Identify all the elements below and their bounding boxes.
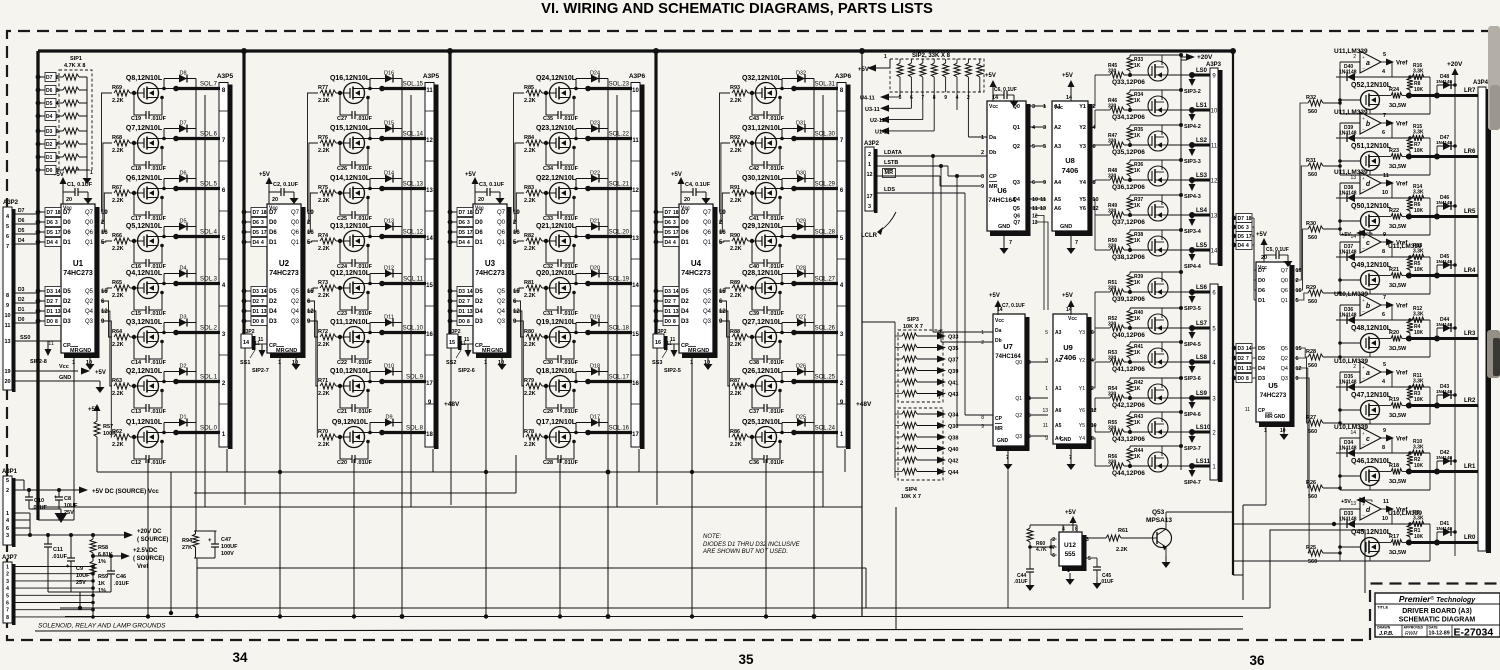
svg-text:APPROVED: APPROVED <box>1404 626 1424 630</box>
svg-text:74HC273: 74HC273 <box>475 270 505 277</box>
svg-text:GND: GND <box>1060 224 1072 230</box>
svg-text:RWM: RWM <box>1405 631 1418 637</box>
svg-text:DRIVER BOARD (A3): DRIVER BOARD (A3) <box>1402 608 1472 615</box>
resistor R18 3ohm 5W <box>1380 471 1392 473</box>
svg-text:8: 8 <box>981 174 984 180</box>
svg-text:SOL.31: SOL.31 <box>815 82 836 88</box>
svg-text:D2: D2 <box>269 299 277 305</box>
resistor SIP1 element D1 <box>36 155 41 160</box>
capacitor C8 10UF 25V <box>57 488 61 492</box>
svg-text:14: 14 <box>1350 234 1356 240</box>
svg-text:1N4148: 1N4148 <box>1339 250 1357 256</box>
svg-text:12: 12 <box>426 138 433 144</box>
svg-text:8: 8 <box>6 615 9 621</box>
svg-text:U7: U7 <box>1003 342 1013 351</box>
svg-text:4: 4 <box>1032 125 1036 131</box>
svg-text:5: 5 <box>56 114 59 120</box>
svg-text:Q2,12N10L: Q2,12N10L <box>126 368 163 375</box>
svg-text:U5: U5 <box>1268 381 1278 390</box>
svg-text:Q42: Q42 <box>948 459 958 465</box>
wire IC output bundle <box>719 93 730 437</box>
svg-text:Db: Db <box>989 150 997 156</box>
svg-text:560: 560 <box>1308 235 1317 241</box>
node data stub D5 <box>448 230 453 235</box>
svg-text:10: 10 <box>1032 197 1038 203</box>
transistor Q40 12P06 <box>1148 314 1168 334</box>
wire diode common vertical <box>195 79 197 508</box>
wire comparator input node 45 <box>1339 509 1341 561</box>
node data stub D2 <box>448 299 453 304</box>
svg-text:Q37: Q37 <box>948 358 958 364</box>
svg-text:D6: D6 <box>459 220 466 226</box>
svg-text:10K X 7: 10K X 7 <box>901 494 921 500</box>
svg-text:13: 13 <box>1032 220 1038 226</box>
svg-text:SIP3-6: SIP3-6 <box>1184 376 1201 382</box>
svg-text:5: 5 <box>1043 144 1046 150</box>
svg-text:Y2: Y2 <box>1079 358 1085 364</box>
svg-text:SIP3-2: SIP3-2 <box>1184 89 1201 95</box>
svg-text:Q23,12N10L: Q23,12N10L <box>536 125 577 132</box>
node SOL.31 <box>794 87 838 90</box>
svg-text:7: 7 <box>6 244 9 250</box>
wire source return 47 <box>1369 420 1371 425</box>
svg-text:R89: R89 <box>730 280 740 286</box>
svg-text:Q6,12N10L: Q6,12N10L <box>126 175 163 182</box>
node LS0 <box>1168 74 1192 76</box>
connector A3P6 <box>631 83 640 448</box>
svg-text:5: 5 <box>6 478 9 484</box>
svg-text:12: 12 <box>101 309 108 315</box>
svg-text:SOL.9: SOL.9 <box>406 375 424 381</box>
svg-text:14: 14 <box>426 236 433 242</box>
svg-text:11: 11 <box>1245 407 1250 413</box>
svg-text:+5V: +5V <box>1062 73 1073 79</box>
diode D40 1N4148 <box>1347 73 1355 81</box>
svg-text:D1: D1 <box>1238 366 1245 372</box>
wire drain to SOL.3 <box>158 283 176 285</box>
svg-text:1N4148: 1N4148 <box>1339 380 1357 386</box>
resistor R40 1K <box>1128 326 1132 330</box>
svg-text:6: 6 <box>1382 130 1385 136</box>
svg-text:9: 9 <box>1045 436 1048 442</box>
IC U2 74HC273 <box>267 204 301 353</box>
svg-text:Q38: Q38 <box>948 436 958 442</box>
svg-text:SOL.30: SOL.30 <box>815 132 836 138</box>
svg-text:8: 8 <box>6 293 9 299</box>
svg-text:10K: 10K <box>1414 148 1424 154</box>
wire corner step to title block <box>1270 530 1365 608</box>
svg-text:16: 16 <box>426 332 433 338</box>
svg-text:A3P2: A3P2 <box>864 141 880 147</box>
svg-text:9: 9 <box>56 168 59 174</box>
svg-text:1K: 1K <box>1134 168 1141 174</box>
node data stub D1 <box>448 309 453 314</box>
svg-text:Q4,12N10L: Q4,12N10L <box>126 270 163 277</box>
svg-text:10-12-89: 10-12-89 <box>1429 631 1450 637</box>
svg-text:SOL.7: SOL.7 <box>200 82 218 88</box>
resistor R44 1K <box>1128 464 1132 468</box>
net Vref output 52 <box>1381 61 1386 63</box>
svg-text:6: 6 <box>6 234 9 240</box>
wire feedback line 50 <box>1391 183 1393 198</box>
svg-text:8: 8 <box>55 319 58 325</box>
svg-text:1K: 1K <box>1134 203 1141 209</box>
resistor R9 3.3K <box>1412 521 1424 527</box>
svg-text:.01UF: .01UF <box>151 216 167 222</box>
node data stub D2 <box>36 299 41 304</box>
svg-text:13: 13 <box>1350 501 1356 507</box>
svg-text:Q33: Q33 <box>948 335 958 341</box>
svg-text:D7: D7 <box>47 210 54 216</box>
svg-text:C8: C8 <box>64 496 71 502</box>
ground SIP1 <box>86 172 88 178</box>
svg-text:.01UF: .01UF <box>357 216 373 222</box>
svg-text:7: 7 <box>56 142 59 148</box>
svg-text:C27: C27 <box>337 116 347 122</box>
transistor Q37 12P06 <box>1148 201 1168 221</box>
svg-text:Q5: Q5 <box>703 289 712 295</box>
svg-text:27K: 27K <box>182 545 192 551</box>
svg-text:SOLENOID, RELAY AND LAMP GROUN: SOLENOID, RELAY AND LAMP GROUNDS <box>38 623 166 630</box>
svg-text:R69: R69 <box>112 85 122 91</box>
node LR7 <box>1402 95 1409 97</box>
svg-text:Y3: Y3 <box>1079 144 1086 150</box>
net label SIP4-7 <box>1191 466 1193 470</box>
wire solenoid ground rail lower <box>35 629 1243 631</box>
svg-text:LR4: LR4 <box>1464 268 1476 274</box>
svg-text:GND: GND <box>79 348 91 354</box>
svg-text:Q24,12N10L: Q24,12N10L <box>536 75 577 82</box>
svg-text:SOL.3: SOL.3 <box>200 277 218 283</box>
wire drain to SOL.26 <box>776 332 794 334</box>
svg-text:SOL.14: SOL.14 <box>403 132 424 138</box>
wire drain to SOL.23 <box>570 88 588 90</box>
wire source return 48 <box>1369 353 1371 358</box>
svg-text:2.2K: 2.2K <box>730 293 742 299</box>
node SOL.14 <box>382 137 426 140</box>
svg-text:R87: R87 <box>730 378 740 384</box>
resistor R38 1K <box>1128 248 1132 252</box>
node data stub D4 <box>36 240 41 245</box>
svg-text:1: 1 <box>1043 104 1046 110</box>
svg-text:Q40,12P06: Q40,12P06 <box>1112 332 1145 339</box>
svg-text:2.2K: 2.2K <box>318 198 330 204</box>
ground decoupling <box>499 192 501 198</box>
resistor R61 2.2K <box>1084 537 1106 539</box>
node data stub D5 <box>654 230 659 235</box>
capacitor C19 .01UF <box>132 91 136 95</box>
svg-text:SIP2-7: SIP2-7 <box>252 368 269 374</box>
svg-text:.01UF: .01UF <box>563 409 579 415</box>
svg-text:R76: R76 <box>318 135 328 141</box>
wire drain to SOL.11 <box>364 283 382 285</box>
svg-text:SIP4-3: SIP4-3 <box>1184 194 1201 200</box>
svg-text:+48V: +48V <box>856 401 872 408</box>
wire drain to SOL.29 <box>776 188 794 190</box>
svg-text:7: 7 <box>467 299 470 305</box>
svg-text:+5V: +5V <box>259 172 270 178</box>
wire cell source rail 36 <box>1130 159 1181 161</box>
node LR1 <box>1402 471 1409 473</box>
svg-text:Q44: Q44 <box>948 470 959 476</box>
capacitor C26 .01UF <box>338 141 342 145</box>
svg-text:C14: C14 <box>131 360 142 366</box>
node data stub D6 <box>36 220 41 225</box>
power +5V SIP2 <box>867 65 876 72</box>
diode D28 <box>781 274 783 284</box>
svg-text:MR: MR <box>989 184 998 190</box>
node data stub D1 <box>242 309 247 314</box>
wire drain to SOL.5 <box>158 188 176 190</box>
svg-text:3Ω,5W: 3Ω,5W <box>1389 283 1407 289</box>
svg-text:3.3K: 3.3K <box>1413 445 1424 451</box>
svg-text:Q5,12N10L: Q5,12N10L <box>126 223 163 230</box>
svg-text:4.7K: 4.7K <box>1036 547 1047 553</box>
svg-text:GND: GND <box>997 438 1009 444</box>
wire source return 45 <box>1369 557 1371 562</box>
svg-text:Y1: Y1 <box>1079 104 1086 110</box>
svg-text:Vref: Vref <box>1396 371 1408 377</box>
svg-text:18: 18 <box>261 210 267 216</box>
svg-text:3: 3 <box>1043 125 1046 131</box>
svg-text:R17: R17 <box>1389 534 1399 540</box>
transistor Q43 12P06 <box>1148 418 1168 438</box>
svg-text:6: 6 <box>6 526 9 532</box>
svg-text:R85: R85 <box>524 85 534 91</box>
svg-text:D0: D0 <box>1258 278 1265 284</box>
resistor R19 3ohm 5W <box>1380 405 1392 407</box>
svg-text:5: 5 <box>1028 413 1031 419</box>
svg-text:Q2: Q2 <box>497 299 506 305</box>
svg-text:R26: R26 <box>1306 480 1316 486</box>
svg-text:6: 6 <box>513 299 517 305</box>
svg-text:R61: R61 <box>1118 528 1128 534</box>
wire source ground drop <box>559 459 561 617</box>
svg-text:.01UF: .01UF <box>357 166 373 172</box>
svg-text:9: 9 <box>1383 428 1386 434</box>
diode D4 <box>163 274 165 284</box>
ground decoupling <box>705 192 707 198</box>
svg-text:3: 3 <box>56 88 59 94</box>
svg-text:+5V DC (SOURCE) Vcc: +5V DC (SOURCE) Vcc <box>92 488 159 495</box>
svg-text:1: 1 <box>6 565 9 571</box>
svg-text:2.2K: 2.2K <box>112 148 124 154</box>
resistor R16 3.3K <box>1412 74 1424 80</box>
diode D17 <box>575 423 577 433</box>
svg-text:Q14,12N10L: Q14,12N10L <box>330 175 371 182</box>
svg-text:560: 560 <box>1308 299 1317 305</box>
wire group rail x450 <box>448 51 451 334</box>
svg-text:.01UF: .01UF <box>151 116 167 122</box>
wire feedback line 48 <box>1391 305 1393 320</box>
wire R94 C47 bottom <box>194 557 215 559</box>
wire feedback line 51 <box>1391 123 1393 138</box>
node SOL.4 <box>176 235 220 238</box>
svg-text:SOL.1: SOL.1 <box>200 375 218 381</box>
svg-text:SOL.26: SOL.26 <box>815 326 836 332</box>
svg-text:20: 20 <box>684 197 690 203</box>
svg-text:1: 1 <box>90 170 93 176</box>
diode D36 1N4148 <box>1347 316 1355 324</box>
svg-text:SOL.24: SOL.24 <box>815 426 836 432</box>
wire U5 pin1 drop <box>1265 423 1267 505</box>
svg-text:2.2K: 2.2K <box>318 246 330 252</box>
svg-text:1K: 1K <box>1134 98 1141 104</box>
svg-text:Q41: Q41 <box>948 381 958 387</box>
svg-text:2.2K: 2.2K <box>318 342 330 348</box>
svg-text:D13: D13 <box>384 219 394 225</box>
resistor R36 1K <box>1128 178 1132 182</box>
svg-text:560: 560 <box>1308 172 1317 178</box>
svg-text:7: 7 <box>1383 113 1386 119</box>
svg-text:SOL.12: SOL.12 <box>403 230 424 236</box>
net label SIP2-7 <box>259 350 266 357</box>
svg-text:.01UF: .01UF <box>357 360 373 366</box>
svg-text:LS4: LS4 <box>1196 208 1208 214</box>
node LS4 <box>1168 214 1192 216</box>
resistor R10 3.3K <box>1412 450 1424 456</box>
resistor R17 3ohm 5W <box>1380 542 1392 544</box>
svg-text:20: 20 <box>272 197 278 203</box>
resistor SIP1 element D0 <box>36 168 41 173</box>
svg-text:D7: D7 <box>1258 268 1265 274</box>
net label SIP3-7 <box>1191 432 1193 436</box>
net label SIP4-4 <box>1191 250 1193 254</box>
node SOL.3 <box>176 282 220 285</box>
svg-text:C10: C10 <box>34 498 44 504</box>
svg-text:SIP4-6: SIP4-6 <box>1184 412 1201 418</box>
svg-text:Q35: Q35 <box>948 346 958 352</box>
node LS11 <box>1168 465 1192 467</box>
resistor R25 560 <box>1308 550 1323 556</box>
node LS9 <box>1168 397 1192 399</box>
svg-text:18: 18 <box>467 210 473 216</box>
ground decoupling <box>293 192 295 198</box>
svg-text:SIP3-7: SIP3-7 <box>1184 446 1201 452</box>
svg-text:7: 7 <box>1246 356 1249 362</box>
svg-text:Q48,12N10L: Q48,12N10L <box>1351 325 1392 332</box>
svg-text:GND: GND <box>285 348 297 354</box>
svg-text:Q53: Q53 <box>1152 509 1165 516</box>
wire group rail x656 <box>654 51 657 334</box>
svg-text:C3, 0.1UF: C3, 0.1UF <box>479 182 505 188</box>
svg-text:2.2K: 2.2K <box>524 148 536 154</box>
wire ground collector y472 <box>97 471 823 473</box>
svg-text:1N4148: 1N4148 <box>1436 79 1453 84</box>
svg-text:Q3: Q3 <box>1281 376 1288 382</box>
svg-text:5: 5 <box>101 240 105 246</box>
svg-text:Q2: Q2 <box>291 299 300 305</box>
svg-text:8: 8 <box>1246 376 1249 382</box>
wire drain to SOL.22 <box>570 138 588 140</box>
svg-text:A3P5: A3P5 <box>423 73 440 80</box>
wire feedback line 52 <box>1391 62 1393 77</box>
svg-text:74HC273: 74HC273 <box>681 270 711 277</box>
svg-text:Vcc: Vcc <box>995 318 1004 324</box>
svg-text:Vref: Vref <box>1396 182 1408 188</box>
svg-text:Q5: Q5 <box>85 289 94 295</box>
svg-text:U1-11: U1-11 <box>875 129 890 135</box>
svg-text:.01UF: .01UF <box>151 166 167 172</box>
svg-text:SOL.13: SOL.13 <box>403 182 424 188</box>
capacitor C2 0.1UF <box>269 191 281 193</box>
svg-text:D16: D16 <box>384 71 394 77</box>
resistor R42 1K <box>1128 396 1132 400</box>
svg-text:C11: C11 <box>53 547 63 553</box>
svg-text:Q1: Q1 <box>291 240 300 246</box>
wire solenoid common vertical <box>410 95 412 507</box>
node data stub D1 <box>36 309 41 314</box>
svg-text:10: 10 <box>1382 516 1388 522</box>
diode D24 <box>575 79 577 89</box>
resistor R12 3.3K <box>1412 317 1424 323</box>
wire connector bottom drop <box>226 449 228 472</box>
svg-text:D7: D7 <box>253 210 260 216</box>
svg-text:Q2: Q2 <box>703 299 712 305</box>
svg-text:12: 12 <box>866 172 872 178</box>
svg-text:6: 6 <box>1091 330 1094 336</box>
svg-text:.01UF: .01UF <box>32 505 48 511</box>
svg-text:( SOURCE): ( SOURCE) <box>133 556 164 562</box>
svg-text:2: 2 <box>981 340 984 346</box>
svg-text:17: 17 <box>632 432 639 438</box>
svg-text:D1: D1 <box>63 240 71 246</box>
svg-text:D4: D4 <box>269 309 277 315</box>
svg-text:D4: D4 <box>475 309 483 315</box>
wire solenoid ground rail upper <box>65 616 1243 618</box>
svg-text:10K: 10K <box>1414 208 1424 214</box>
svg-text:R88: R88 <box>730 329 740 335</box>
svg-text:Y4: Y4 <box>1079 180 1087 186</box>
wire drain to SOL.18 <box>570 332 588 334</box>
svg-text:11: 11 <box>1043 423 1048 429</box>
svg-text:3.3K: 3.3K <box>1413 312 1424 318</box>
resistor R1 10K <box>1408 522 1412 526</box>
resistor R32 560 <box>1308 100 1323 106</box>
svg-text:C28: C28 <box>543 460 553 466</box>
wire U7 ground drop <box>1007 470 1009 608</box>
svg-text:5: 5 <box>1296 298 1299 304</box>
svg-text:R70: R70 <box>318 429 328 435</box>
resistor R39 1K <box>1128 290 1132 294</box>
svg-text:3Ω,5W: 3Ω,5W <box>1389 346 1407 352</box>
capacitor C34 .01UF <box>544 141 548 145</box>
svg-text:1K: 1K <box>1134 238 1141 244</box>
svg-text:15: 15 <box>449 340 455 346</box>
svg-text:13: 13 <box>261 309 267 315</box>
capacitor C16 .01UF <box>132 239 136 243</box>
svg-text:Q25,12N10L: Q25,12N10L <box>742 419 783 426</box>
node data stub D0 <box>36 319 41 324</box>
svg-text:LDATA: LDATA <box>884 150 902 156</box>
svg-text:LS6: LS6 <box>1196 285 1208 291</box>
wire diode common vertical <box>401 79 403 617</box>
IC U6 74HC164 <box>987 101 1026 231</box>
svg-text:D0: D0 <box>63 220 71 226</box>
svg-text:3.3K: 3.3K <box>1413 516 1424 522</box>
svg-text:17: 17 <box>261 230 267 236</box>
svg-text:7: 7 <box>1075 240 1078 246</box>
svg-text:SCHEMATIC DIAGRAM: SCHEMATIC DIAGRAM <box>1399 617 1476 624</box>
svg-text:1K: 1K <box>1134 280 1141 286</box>
svg-text:C46: C46 <box>116 574 126 580</box>
svg-text:D7: D7 <box>665 210 672 216</box>
node SOL.27 <box>794 282 838 285</box>
svg-text:D4: D4 <box>681 309 689 315</box>
wire ground rail y608 <box>60 607 1270 609</box>
svg-text:−: − <box>1362 513 1365 518</box>
svg-text:+: + <box>54 495 58 501</box>
